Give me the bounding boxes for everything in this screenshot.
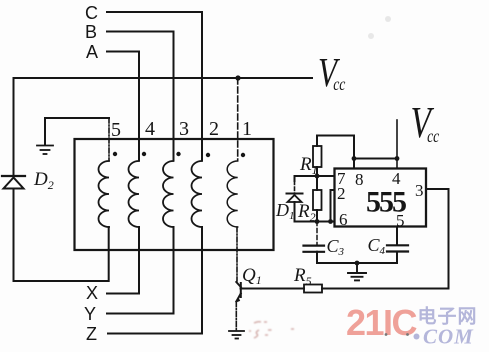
wire winding 1 terminal dashed [237, 78, 239, 160]
op-amp/timer U1 555 box [335, 169, 427, 227]
wire C to winding 2 terminal [107, 12, 202, 160]
svg-text:com: com [423, 318, 474, 351]
wire Y to winding 3 [107, 227, 174, 314]
speck under logo C [406, 333, 409, 336]
wire pin 4 to Vcc [396, 120, 398, 169]
wire R1 bottom to pin 7 [317, 167, 335, 176]
wire C3 bottom to ground rail [317, 252, 397, 263]
transformer core box [75, 139, 274, 250]
wire junction to diode D1 [295, 176, 318, 181]
wire R1 top to pin 8 [317, 136, 354, 169]
transformer winding 4 [129, 161, 140, 227]
wire Vcc rail [14, 77, 313, 79]
wire Q1 emitter to ground dash-dot [235, 302, 237, 331]
wire Vcc rail down to diode D2 [13, 78, 15, 176]
wire pin8 pin4 tie [354, 158, 397, 160]
wire D2 anode to winding 5 bottom [14, 189, 109, 282]
wire X to winding 4 [107, 227, 139, 294]
winding 2 polarity dot [206, 153, 210, 157]
wire D1 anode to pin6 rail [295, 202, 335, 222]
svg-text:6: 6 [339, 210, 348, 229]
junction R1 pin7 [315, 174, 320, 179]
capacitor C4 [387, 245, 408, 251]
scan noise speck 1 [385, 16, 391, 22]
svg-text:5: 5 [111, 119, 121, 141]
svg-text:1: 1 [242, 118, 252, 140]
svg-text:Z: Z [86, 324, 97, 344]
wire pin 5 to C4 [396, 227, 398, 245]
ground (Q1 emitter) [229, 331, 244, 339]
winding 3 polarity dot [176, 152, 180, 156]
logo dot [414, 334, 420, 340]
svg-text:3: 3 [179, 118, 189, 140]
svg-text:8: 8 [355, 170, 364, 189]
speck under logo I [385, 333, 388, 336]
winding 1 polarity dot [241, 153, 245, 157]
junction pin 4 tie [395, 156, 400, 161]
resistor R5 [304, 285, 322, 293]
svg-text:X: X [86, 283, 98, 303]
transformer winding 3 [163, 161, 174, 227]
wire R2 top [316, 176, 318, 190]
svg-text:21IC: 21IC [346, 302, 418, 343]
winding 4 polarity dot [142, 152, 146, 156]
wire winding 1 to Q1 collector dash-dot [236, 227, 238, 281]
capacitor C3 [304, 246, 325, 252]
svg-text:4: 4 [145, 118, 155, 140]
resistor R1 [313, 146, 322, 167]
winding 5 polarity dot [113, 152, 117, 156]
transformer winding 5 [99, 161, 109, 227]
wire R5 to 555 pin 3 [322, 189, 449, 289]
diode D2 [2, 176, 25, 189]
svg-text:B: B [85, 22, 97, 42]
svg-text:4: 4 [392, 169, 401, 188]
svg-text:Y: Y [84, 304, 96, 324]
wire B to winding 3 terminal [107, 32, 174, 161]
wire C4 bottom [396, 252, 398, 264]
transformer winding 2 [192, 161, 202, 227]
svg-text:2: 2 [209, 118, 219, 140]
junction ground rail [355, 261, 360, 266]
junction Vcc rail / winding 1 [235, 75, 240, 80]
transistor Q1 [236, 282, 241, 303]
svg-text:3: 3 [415, 181, 424, 200]
transformer winding 1 [227, 161, 237, 227]
scan noise speck 2 [368, 33, 374, 39]
svg-text:A: A [86, 42, 98, 62]
watermark red stamp remnant [249, 322, 294, 338]
wire ground to winding 5 terminal [45, 118, 109, 145]
wire R2 bottom [316, 210, 318, 222]
svg-text:C: C [85, 3, 98, 23]
svg-text:2: 2 [337, 184, 346, 203]
junction pin 8 tie [352, 156, 357, 161]
wire pin 2 tie to pin 6 [331, 190, 335, 222]
resistor R2 [313, 190, 322, 210]
wire Z to winding 2 [108, 227, 202, 334]
junction pin2 tie [328, 219, 333, 224]
diode D1 [287, 194, 303, 203]
wire winding 5 terminal dash-dot [108, 118, 110, 160]
wire Q1 base to R5 [241, 288, 305, 290]
wire junction to C3 dashed [316, 222, 318, 245]
ground (555 caps) [348, 263, 366, 280]
ground (winding 5 side) [37, 146, 53, 155]
wire A to winding 4 terminal [107, 52, 139, 161]
junction R2 bottom [315, 219, 320, 224]
